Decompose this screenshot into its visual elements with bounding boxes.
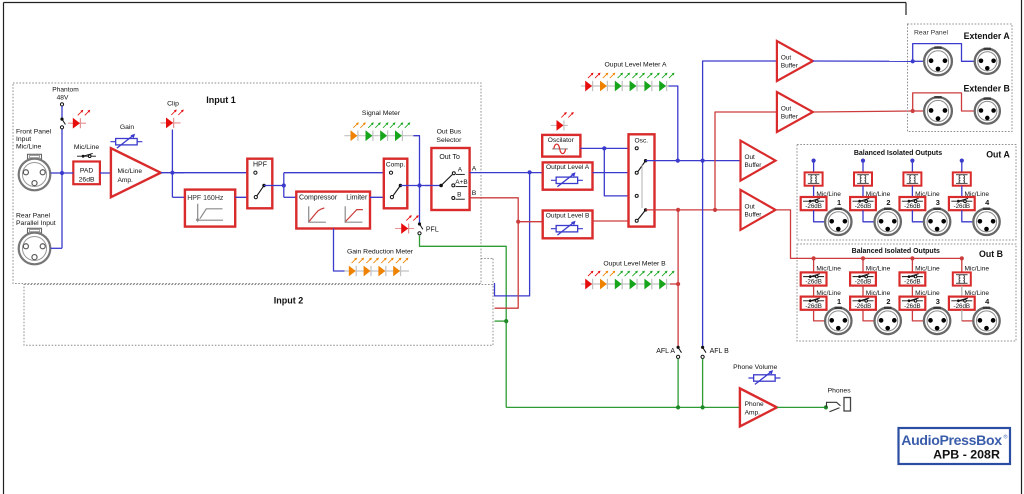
potentiometer gain bbox=[110, 141, 142, 143]
svg-text:Mic/Line: Mic/Line bbox=[74, 144, 100, 151]
svg-text:Out: Out bbox=[745, 154, 756, 161]
pad -26dB out B row1 ch3 bbox=[900, 272, 926, 285]
Osc selector block bbox=[629, 134, 655, 226]
node extender A bbox=[911, 59, 915, 63]
node out B ch2 bbox=[861, 256, 865, 260]
wire main to HPF switch bbox=[174, 172, 254, 174]
svg-text:Buffer: Buffer bbox=[781, 63, 799, 70]
pad -26dB out B row1 ch1 bbox=[801, 272, 827, 285]
wire AFL B green bbox=[702, 359, 704, 408]
pad -26dB out A ch1 bbox=[801, 197, 827, 210]
svg-text:Input 1: Input 1 bbox=[206, 95, 236, 105]
node HPF output bbox=[282, 183, 286, 187]
signal meter LED bar bbox=[344, 135, 413, 137]
HPF bypass switch block bbox=[247, 159, 272, 209]
wire compressor to GR meter bbox=[334, 229, 345, 272]
osc switch B bbox=[635, 194, 638, 197]
oscillator block bbox=[542, 135, 580, 157]
svg-text:Selector: Selector bbox=[436, 137, 462, 144]
wire PFL green bbox=[420, 235, 507, 407]
svg-text:Phone: Phone bbox=[745, 401, 764, 408]
wire out B ch1 drop bbox=[813, 258, 815, 272]
svg-text:-26dB: -26dB bbox=[954, 203, 971, 210]
wire bus A to input2 bbox=[495, 172, 530, 296]
wire buffer1 out bbox=[813, 60, 913, 62]
wire to compressor bbox=[284, 196, 297, 198]
wire pad to XLR out B ch4 bbox=[961, 310, 963, 321]
svg-text:Amp.: Amp. bbox=[118, 177, 134, 184]
node out A ch1 bbox=[812, 159, 816, 163]
wire pad to XLR ch4 bbox=[962, 210, 974, 222]
svg-text:AFL A: AFL A bbox=[656, 348, 675, 355]
wire out B ch2 mid bbox=[862, 286, 864, 297]
wire bus B to output level B bbox=[518, 221, 543, 223]
svg-text:-26dB: -26dB bbox=[805, 303, 822, 310]
svg-text:2: 2 bbox=[886, 297, 890, 306]
node out A ch3 bbox=[910, 159, 914, 163]
XLR extender A1 bbox=[924, 47, 952, 75]
pad -26dB out B row1 ch2 bbox=[850, 272, 876, 285]
wire node to HPF160 bbox=[171, 173, 173, 198]
transformer T4 out A bbox=[953, 172, 971, 185]
node amp output bbox=[170, 171, 174, 175]
wire out B ch2 drop bbox=[862, 258, 864, 272]
wire oscillator to B contact bbox=[604, 148, 635, 196]
node out A ch4 bbox=[960, 159, 964, 163]
output level meter A LED bar bbox=[581, 85, 669, 87]
wire comp out bbox=[400, 185, 441, 187]
wire out B ch3 mid bbox=[911, 286, 913, 297]
pad -26dB out B row2 ch1 bbox=[801, 297, 827, 310]
wire limiter out bbox=[370, 196, 390, 198]
wire output level B to osc switch bbox=[593, 220, 630, 222]
switch S5 AFL B bbox=[701, 346, 704, 349]
wire meter A feed bbox=[669, 86, 678, 161]
switch S3 PFL bbox=[419, 186, 421, 225]
svg-text:A: A bbox=[472, 165, 477, 172]
switch S1 phantom bbox=[60, 118, 63, 121]
svg-text:A+B: A+B bbox=[455, 179, 467, 186]
XLR out A ch4 bbox=[973, 209, 999, 235]
svg-text:-26dB: -26dB bbox=[904, 203, 921, 210]
wire output level A to osc switch bbox=[593, 172, 636, 174]
svg-text:Out A: Out A bbox=[986, 150, 1010, 160]
XLR J2 rear panel parallel input bbox=[28, 228, 42, 233]
svg-text:Amp.: Amp. bbox=[745, 409, 761, 416]
Output Level B block bbox=[543, 211, 593, 239]
svg-text:Out Bus: Out Bus bbox=[437, 129, 462, 136]
pad -26dB out B row2 ch2 bbox=[850, 297, 876, 310]
Input 2 dashed box bbox=[24, 285, 493, 346]
output level meter B LED bar bbox=[581, 283, 670, 285]
node oscillator split bbox=[602, 146, 606, 150]
op-amp U4 out buffer 3 bbox=[741, 141, 776, 181]
pad -26dB out A ch4 bbox=[949, 197, 975, 210]
wire buffer2 feed bbox=[715, 112, 777, 210]
wire out B ch1 mid bbox=[813, 286, 815, 297]
svg-text:-26dB: -26dB bbox=[805, 279, 822, 286]
wire phone amp out bbox=[777, 406, 826, 408]
svg-text:PAD: PAD bbox=[80, 167, 94, 174]
LED D3 PFL indicator bbox=[395, 228, 414, 230]
wire clip LED to node bbox=[171, 130, 173, 173]
svg-text:Out: Out bbox=[745, 204, 756, 211]
svg-text:1: 1 bbox=[837, 297, 841, 306]
node input junction bbox=[60, 171, 64, 175]
transformer T5 out B ch4 bbox=[953, 272, 971, 285]
svg-text:Compressor: Compressor bbox=[299, 195, 338, 202]
wire amp out bbox=[161, 172, 184, 174]
Output Level A block bbox=[543, 162, 593, 189]
AudioPressBox logo box bbox=[899, 428, 1011, 464]
node buffer1 junction bbox=[701, 159, 705, 163]
op-amp U3 out buffer 2 bbox=[777, 92, 813, 132]
gang link bbox=[641, 165, 643, 209]
svg-text:-26dB: -26dB bbox=[954, 303, 971, 310]
wire signal meter feed bbox=[413, 136, 419, 186]
svg-text:-26dB: -26dB bbox=[904, 303, 921, 310]
wire pad to XLR ch2 bbox=[863, 210, 875, 222]
wire out A ch4 bbox=[961, 161, 963, 173]
XLR extender B1 bbox=[924, 97, 952, 125]
node bus B input2 tap bbox=[516, 220, 520, 224]
node buffer2 junction bbox=[713, 208, 717, 212]
svg-text:Rear Panel: Rear Panel bbox=[16, 213, 50, 220]
svg-text:Mic/Line: Mic/Line bbox=[16, 144, 42, 151]
Out To selector block bbox=[431, 148, 469, 210]
svg-text:Out To: Out To bbox=[439, 154, 460, 161]
wire node to PAD bbox=[64, 172, 73, 174]
svg-text:Phantom: Phantom bbox=[52, 87, 79, 94]
XLR out A ch1 bbox=[825, 209, 851, 235]
pad -26dB out A ch2 bbox=[850, 197, 876, 210]
transformer T3 out A bbox=[903, 172, 921, 185]
XLR out B ch1 bbox=[825, 308, 851, 334]
XLR out A ch3 bbox=[924, 209, 950, 235]
switch S2 mic/line bbox=[77, 155, 96, 157]
wire transformer to pad ch4 bbox=[961, 186, 963, 197]
wire bypass upper bbox=[283, 173, 285, 198]
svg-text:Signal Meter: Signal Meter bbox=[362, 110, 401, 117]
wire AFL A green bbox=[677, 359, 679, 408]
wire phones bus bbox=[506, 406, 740, 408]
osc switch A bbox=[635, 147, 638, 150]
wire input vertical bus bbox=[61, 129, 63, 249]
XLR out B ch3 bbox=[924, 308, 950, 334]
LED D1 phantom indicator bbox=[68, 122, 86, 124]
svg-text:HPF: HPF bbox=[253, 162, 267, 169]
svg-text:Buffer: Buffer bbox=[745, 212, 763, 219]
svg-text:Oscilator: Oscilator bbox=[548, 137, 575, 144]
op-amp U5 out buffer 4 bbox=[741, 190, 776, 230]
PAD 26dB block bbox=[73, 162, 100, 185]
svg-text:Gain: Gain bbox=[120, 124, 135, 131]
Out B dashed box bbox=[797, 244, 1016, 341]
wire buffer2 out bbox=[813, 111, 913, 112]
svg-text:1: 1 bbox=[837, 198, 841, 207]
Rear Panel extender dotted box bbox=[908, 24, 1013, 132]
svg-text:Gain Reduction Meter: Gain Reduction Meter bbox=[347, 249, 414, 256]
wire bus B bbox=[470, 198, 519, 308]
selector contact A+B bbox=[452, 184, 455, 187]
node meter B tap bbox=[676, 282, 680, 286]
frame left border bbox=[3, 3, 5, 494]
node meter B junction bbox=[676, 208, 680, 212]
svg-text:Limiter: Limiter bbox=[346, 195, 368, 202]
XLR extender B2 bbox=[975, 98, 1000, 123]
wire transformer to pad ch1 bbox=[813, 186, 815, 197]
svg-text:Input 2: Input 2 bbox=[274, 296, 304, 306]
svg-text:Comp.: Comp. bbox=[386, 162, 406, 169]
node signal meter tap bbox=[417, 183, 421, 187]
svg-text:B: B bbox=[457, 191, 461, 198]
transformer T1 out A bbox=[805, 172, 823, 185]
wire extender B bbox=[913, 93, 975, 111]
op-amp U6 phone amp bbox=[740, 388, 777, 426]
XLR out B ch4 bbox=[973, 308, 999, 334]
svg-text:2: 2 bbox=[886, 198, 890, 207]
frame top-right stub bbox=[905, 3, 907, 16]
terminal phantom 48V bbox=[60, 103, 63, 106]
wire pad to XLR ch1 bbox=[814, 210, 826, 222]
wire input2 green AFL bbox=[495, 320, 507, 322]
wire HPF out bbox=[264, 185, 284, 187]
XLR extender A2 bbox=[975, 49, 1000, 74]
op-amp U2 out buffer 1 bbox=[777, 41, 813, 81]
svg-text:Ouput Level Meter B: Ouput Level Meter B bbox=[603, 261, 666, 268]
Out A dashed box bbox=[797, 145, 1016, 241]
node phones jack bbox=[824, 405, 828, 409]
svg-text:PFL: PFL bbox=[426, 226, 439, 233]
node extender B bbox=[911, 109, 915, 113]
potentiometer phone volume bbox=[748, 377, 780, 379]
svg-text:APB - 208R: APB - 208R bbox=[933, 448, 1000, 462]
selector common bbox=[425, 185, 441, 187]
svg-text:3: 3 bbox=[936, 198, 940, 207]
Compressor Limiter block bbox=[296, 192, 370, 229]
wire pad to XLR out B ch1 bbox=[814, 310, 826, 321]
pad -26dB out B row2 ch4 bbox=[949, 297, 975, 310]
svg-text:Osc.: Osc. bbox=[635, 138, 649, 145]
node bus A input2 tap bbox=[528, 170, 532, 174]
wire PAD to amp bbox=[100, 172, 111, 174]
svg-text:Clip: Clip bbox=[167, 101, 179, 108]
node out B ch3 bbox=[910, 256, 914, 260]
node out B ch4 bbox=[960, 256, 964, 260]
switch S4 AFL A bbox=[677, 346, 680, 349]
frame top border bbox=[4, 2, 907, 4]
op-amp U1 Mic/Line Amp bbox=[111, 148, 161, 197]
wire bus B to Out B bbox=[776, 210, 962, 259]
wire out A ch1 bbox=[813, 161, 815, 173]
svg-text:Balanced Isolated Outputs: Balanced Isolated Outputs bbox=[852, 248, 940, 255]
svg-text:-26dB: -26dB bbox=[805, 203, 822, 210]
svg-text:Out: Out bbox=[781, 106, 792, 113]
node out B ch1 bbox=[812, 256, 816, 260]
wire AFL B feed bbox=[702, 161, 704, 348]
wire pad to XLR out B ch2 bbox=[863, 310, 875, 321]
svg-text:Buffer: Buffer bbox=[745, 162, 763, 169]
svg-text:®: ® bbox=[1004, 434, 1008, 441]
wire bus A bbox=[470, 172, 543, 174]
svg-text:Extender B: Extender B bbox=[963, 83, 1009, 93]
wire XLR J1 to node bbox=[51, 172, 63, 174]
LED D2 clip indicator bbox=[161, 122, 181, 124]
wire phantom to switch bbox=[61, 106, 63, 119]
XLR out B ch2 bbox=[875, 308, 901, 334]
XLR out A ch2 bbox=[875, 209, 901, 235]
svg-text:Output Level A: Output Level A bbox=[546, 164, 590, 171]
wire bus B out bbox=[646, 209, 741, 211]
node green AFL junction bbox=[504, 319, 508, 323]
svg-text:Phones: Phones bbox=[828, 388, 852, 395]
node AFL A bus bbox=[676, 405, 680, 409]
wire out B ch4 drop bbox=[961, 258, 963, 272]
node AFL B bus bbox=[701, 405, 705, 409]
svg-text:Front Panel: Front Panel bbox=[16, 129, 52, 136]
HPF 160Hz block bbox=[185, 190, 235, 227]
svg-text:Parallel Input: Parallel Input bbox=[16, 220, 56, 227]
wire pad to XLR ch3 bbox=[912, 210, 924, 222]
wire out B ch3 drop bbox=[911, 258, 913, 272]
svg-text:Output Level B: Output Level B bbox=[546, 213, 590, 220]
wire extender A bbox=[913, 44, 975, 62]
pad -26dB out B row2 ch3 bbox=[900, 297, 926, 310]
svg-text:26dB: 26dB bbox=[79, 176, 95, 183]
svg-text:B: B bbox=[472, 190, 477, 197]
svg-text:A: A bbox=[458, 167, 463, 174]
svg-text:Phone Volume: Phone Volume bbox=[733, 364, 777, 371]
svg-text:Ouput Level Meter A: Ouput Level Meter A bbox=[605, 62, 667, 69]
svg-text:Out B: Out B bbox=[979, 249, 1003, 259]
wire meter B feed bbox=[670, 283, 678, 285]
svg-text:-26dB: -26dB bbox=[855, 203, 872, 210]
LED D4 oscillator indicator bbox=[551, 124, 568, 126]
svg-text:-26dB: -26dB bbox=[904, 279, 921, 286]
wire out B ch4 mid bbox=[961, 286, 963, 297]
pad -26dB out A ch3 bbox=[900, 197, 926, 210]
selector contact B bbox=[452, 197, 455, 200]
gain reduction meter LED bar bbox=[345, 270, 410, 272]
svg-text:Out: Out bbox=[781, 55, 792, 62]
svg-text:Rear Panel: Rear Panel bbox=[914, 30, 948, 37]
wire XLR J2 to vertical bus bbox=[51, 247, 63, 249]
phones jack sleeve bbox=[844, 398, 851, 412]
svg-text:-26dB: -26dB bbox=[855, 303, 872, 310]
svg-text:Buffer: Buffer bbox=[781, 114, 799, 121]
wire bus A out bbox=[646, 160, 741, 162]
frame right border bbox=[1021, 0, 1023, 494]
selector contact A bbox=[452, 172, 455, 175]
svg-text:3: 3 bbox=[936, 297, 940, 306]
svg-text:-26dB: -26dB bbox=[855, 279, 872, 286]
transformer T2 out A bbox=[854, 172, 872, 185]
phones jack contacts bbox=[827, 402, 841, 407]
wire transformer to pad ch2 bbox=[862, 186, 864, 197]
Input 1 dashed box bbox=[13, 83, 481, 284]
svg-text:AudioPressBox: AudioPressBox bbox=[901, 432, 1002, 448]
svg-text:HPF 160Hz: HPF 160Hz bbox=[187, 195, 224, 202]
node meter A junction bbox=[676, 159, 680, 163]
wire transformer to pad ch3 bbox=[911, 186, 913, 197]
wire out A ch2 bbox=[862, 161, 864, 173]
wire pad to XLR out B ch3 bbox=[912, 310, 924, 321]
XLR J1 front panel input bbox=[28, 154, 42, 159]
svg-text:Mic/Line: Mic/Line bbox=[118, 168, 143, 175]
wire HPF160 out bbox=[235, 196, 254, 198]
wire buffer1 feed bbox=[703, 61, 777, 161]
svg-text:Balanced Isolated Outputs: Balanced Isolated Outputs bbox=[854, 150, 942, 157]
node out A ch2 bbox=[861, 159, 865, 163]
svg-text:AFL B: AFL B bbox=[710, 348, 730, 355]
wire oscillator out bbox=[580, 147, 635, 149]
Comp bypass switch block bbox=[384, 159, 408, 209]
wire out A ch3 bbox=[911, 161, 913, 173]
svg-text:48V: 48V bbox=[57, 95, 69, 102]
svg-text:Extender A: Extender A bbox=[964, 31, 1011, 41]
svg-text:Input: Input bbox=[16, 136, 31, 143]
